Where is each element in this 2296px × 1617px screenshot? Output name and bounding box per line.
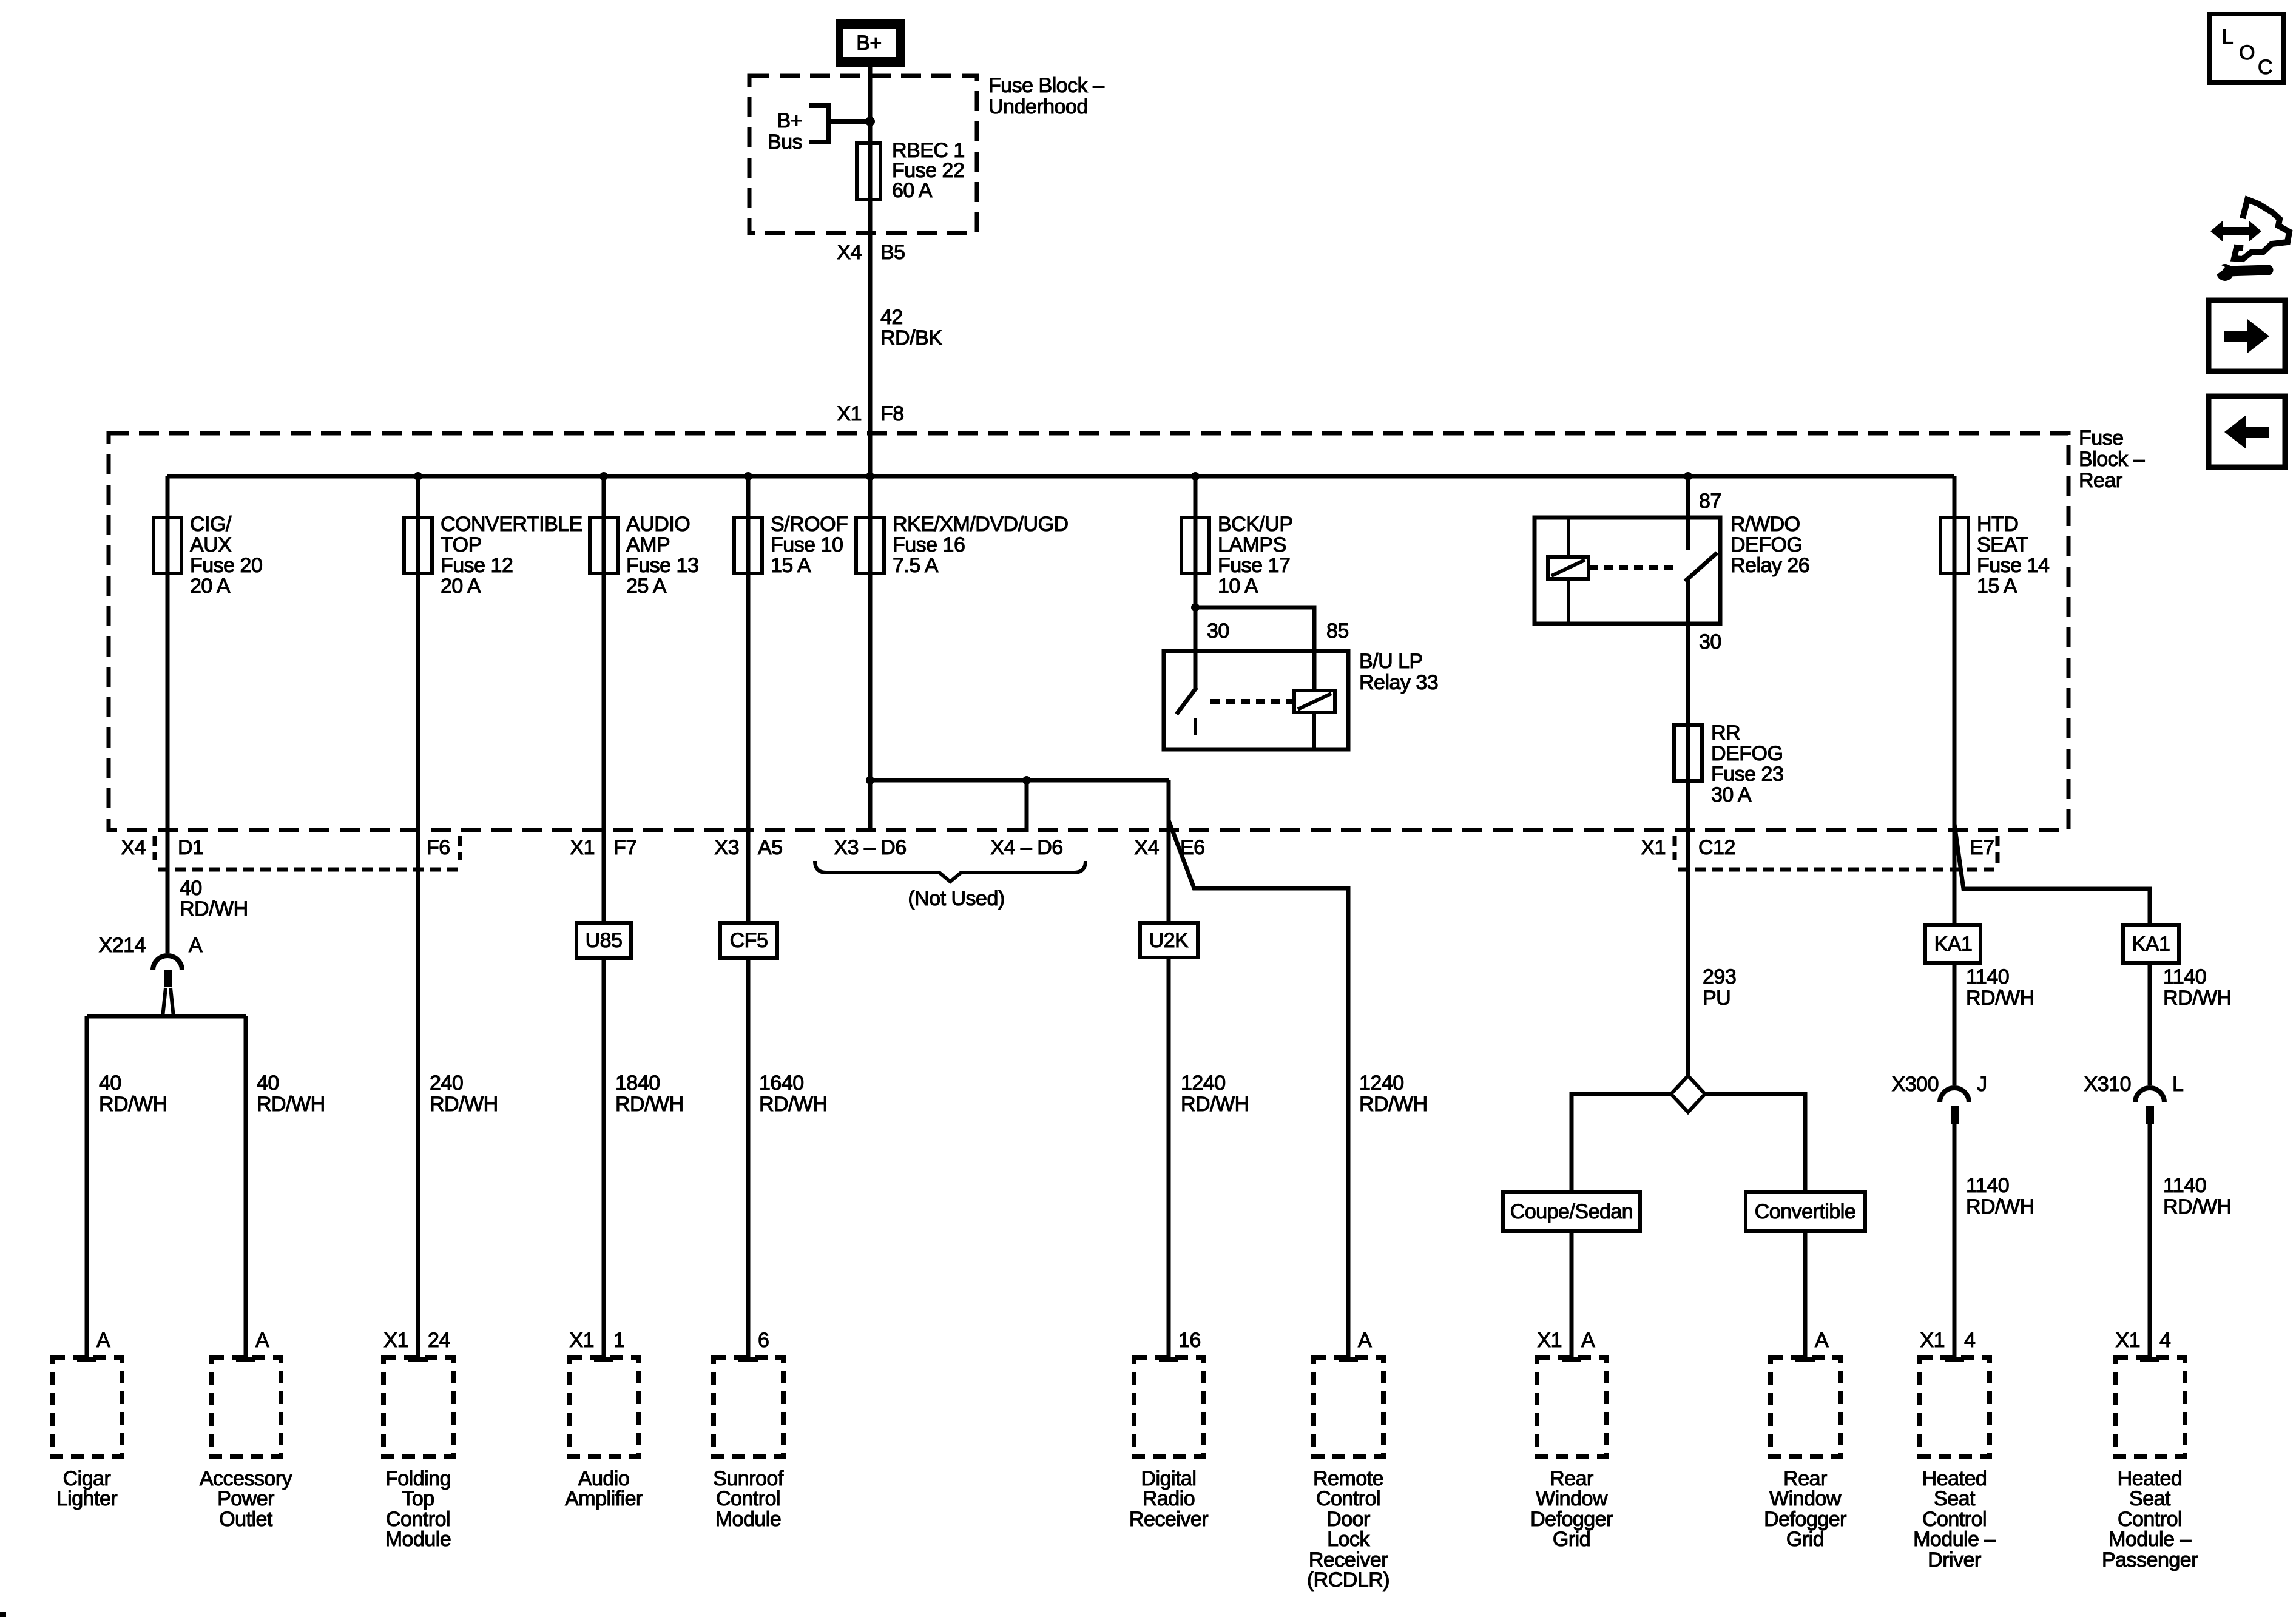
connector X310 L xyxy=(2084,1073,2184,1124)
svg-text:40: 40 xyxy=(257,1072,279,1095)
wire HTD SEAT passenger branch xyxy=(1954,824,2150,925)
station box U2K xyxy=(1140,923,1198,957)
svg-text:RR: RR xyxy=(1711,721,1740,744)
svg-text:A: A xyxy=(1815,1329,1829,1352)
svg-text:RKE/XM/DVD/UGD: RKE/XM/DVD/UGD xyxy=(893,513,1069,536)
junction rke wire xyxy=(866,776,874,785)
svg-text:10 A: 10 A xyxy=(1218,575,1258,598)
svg-text:AUX: AUX xyxy=(190,533,231,556)
wire RKE link to U2K branch xyxy=(870,778,1169,783)
module Heated Seat Control Module Driver xyxy=(1913,1358,1996,1571)
B+ terminal xyxy=(836,19,905,67)
Fuse Block - Rear dashed box xyxy=(109,433,2068,830)
pin labels X1 4 heated seat driver xyxy=(1920,1329,1975,1352)
svg-text:20 A: 20 A xyxy=(190,575,231,598)
svg-text:RD/WH: RD/WH xyxy=(2163,1195,2232,1218)
svg-text:CF5: CF5 xyxy=(730,929,768,952)
svg-text:1240: 1240 xyxy=(1181,1072,1226,1095)
module Sunroof Control Module xyxy=(713,1358,784,1531)
wire label 293 PU xyxy=(1703,965,1736,1010)
connector X300 J xyxy=(1892,1073,1987,1124)
pin labels X1 F8 xyxy=(837,402,903,425)
wire Coupe/Sedan to defogger grid xyxy=(1570,1231,1574,1359)
svg-text:Power: Power xyxy=(217,1487,274,1510)
Fuse Block - Underhood dashed box xyxy=(749,76,977,233)
icon wrench xyxy=(2212,260,2268,281)
svg-text:C12: C12 xyxy=(1698,836,1735,859)
svg-text:X1: X1 xyxy=(1641,836,1666,859)
pin labels X3 A5 xyxy=(714,836,782,859)
wire branch S/ROOF xyxy=(746,476,751,1359)
svg-text:X3 – D6: X3 – D6 xyxy=(834,836,906,859)
svg-text:B/U LP: B/U LP xyxy=(1359,650,1423,673)
svg-text:RD/WH: RD/WH xyxy=(430,1093,498,1116)
junction bck/up branch xyxy=(1191,472,1200,481)
svg-text:40: 40 xyxy=(99,1072,121,1095)
svg-text:LAMPS: LAMPS xyxy=(1218,533,1286,556)
svg-text:RD/WH: RD/WH xyxy=(1181,1093,1249,1116)
svg-text:Grid: Grid xyxy=(1786,1528,1824,1551)
wire label 1140 RD/WH driver lower xyxy=(1966,1174,2034,1218)
svg-text:7.5 A: 7.5 A xyxy=(893,554,939,577)
svg-text:X310: X310 xyxy=(2084,1073,2131,1096)
svg-text:L: L xyxy=(2172,1073,2183,1096)
svg-text:RD/BK: RD/BK xyxy=(880,326,942,349)
svg-text:Window: Window xyxy=(1769,1487,1842,1510)
svg-text:X1: X1 xyxy=(1537,1329,1562,1352)
module Accessory Power Outlet xyxy=(200,1358,292,1531)
junction convertible top branch xyxy=(414,472,422,481)
svg-text:AUDIO: AUDIO xyxy=(626,513,690,536)
wire label 40 RD/WH right xyxy=(257,1072,325,1116)
pin labels X4 E6 xyxy=(1134,836,1204,859)
svg-text:16: 16 xyxy=(1178,1329,1201,1352)
svg-text:15 A: 15 A xyxy=(1977,575,2017,598)
svg-text:Block –: Block – xyxy=(2079,448,2145,471)
pin labels X1 24 folding top xyxy=(383,1329,450,1352)
svg-text:B5: B5 xyxy=(880,241,905,264)
svg-text:CIG/: CIG/ xyxy=(190,513,232,536)
svg-text:O: O xyxy=(2239,41,2255,64)
svg-text:HTD: HTD xyxy=(1977,513,2018,536)
pin labels X1 4 heated seat passenger xyxy=(2115,1329,2170,1352)
svg-text:DEFOG: DEFOG xyxy=(1730,533,1802,556)
svg-text:1640: 1640 xyxy=(759,1072,804,1095)
svg-text:Fuse 10: Fuse 10 xyxy=(771,533,843,556)
svg-text:Radio: Radio xyxy=(1143,1487,1195,1510)
svg-text:X300: X300 xyxy=(1892,1073,1939,1096)
wire branch BCK/UP LAMPS xyxy=(1194,476,1198,689)
svg-text:Fuse Block –: Fuse Block – xyxy=(988,74,1104,97)
pin labels X3-D6 X4-D6 (Not Used) xyxy=(815,836,1086,910)
svg-text:U2K: U2K xyxy=(1149,929,1189,952)
station box CF5 xyxy=(720,923,777,958)
svg-text:Driver: Driver xyxy=(1928,1548,1981,1571)
svg-text:4: 4 xyxy=(1964,1329,1975,1352)
svg-text:30: 30 xyxy=(1699,630,1721,653)
svg-text:20 A: 20 A xyxy=(441,575,481,598)
svg-text:DEFOG: DEFOG xyxy=(1711,742,1783,765)
svg-text:L: L xyxy=(2222,25,2233,49)
svg-text:F8: F8 xyxy=(880,402,904,425)
svg-text:X1: X1 xyxy=(837,402,862,425)
fuse HTD SEAT Fuse 14 15 A xyxy=(1940,513,2049,598)
svg-text:1140: 1140 xyxy=(2163,1174,2206,1197)
junction x4-d6 stub xyxy=(1022,776,1031,785)
svg-text:(Not Used): (Not Used) xyxy=(908,887,1004,910)
module Folding Top Control Module xyxy=(383,1358,453,1551)
svg-text:40: 40 xyxy=(180,877,202,900)
svg-text:E6: E6 xyxy=(1180,836,1205,859)
wire BCK/UP to relay 33 pin 85 xyxy=(1195,607,1314,690)
relay R/WDO DEFOG Relay 26 xyxy=(1535,476,1809,653)
svg-text:Top: Top xyxy=(402,1487,434,1510)
svg-text:B+: B+ xyxy=(777,109,802,132)
svg-text:X4: X4 xyxy=(1134,836,1159,859)
svg-text:15 A: 15 A xyxy=(771,554,811,577)
svg-text:RD/WH: RD/WH xyxy=(1966,1195,2034,1218)
pin labels X4 B5 xyxy=(837,241,905,264)
module Rear Window Defogger Grid coupe xyxy=(1530,1358,1613,1551)
pin labels X1 A defogger coupe xyxy=(1537,1329,1595,1352)
wire label 1840 RD/WH xyxy=(615,1072,684,1116)
svg-text:A: A xyxy=(255,1329,269,1352)
wire label 1240 RD/WH right xyxy=(1359,1072,1428,1116)
svg-text:Fuse 13: Fuse 13 xyxy=(626,554,698,577)
svg-text:Passenger: Passenger xyxy=(2102,1548,2198,1571)
svg-text:Relay 33: Relay 33 xyxy=(1359,671,1438,694)
svg-text:RD/WH: RD/WH xyxy=(1966,987,2034,1010)
option box Convertible xyxy=(1746,1192,1865,1231)
svg-text:Control: Control xyxy=(716,1487,780,1510)
icon forward arrow box xyxy=(2209,300,2285,371)
wire branch HTD SEAT xyxy=(1953,476,1957,925)
svg-text:F6: F6 xyxy=(427,836,450,859)
fuse RR DEFOG Fuse 23 30 A xyxy=(1674,721,1783,806)
svg-text:X4 – D6: X4 – D6 xyxy=(990,836,1062,859)
wire label 40 RD/WH left xyxy=(99,1072,167,1116)
svg-text:30 A: 30 A xyxy=(1711,783,1752,806)
svg-text:J: J xyxy=(1977,1073,1987,1096)
wire splice Y to cigar lighter and accessory outlet xyxy=(87,988,246,1359)
module Cigar Lighter xyxy=(52,1358,122,1510)
splice diamond 293 PU xyxy=(1572,1076,1805,1192)
svg-text:X4: X4 xyxy=(837,241,862,264)
svg-text:C: C xyxy=(2258,56,2272,79)
svg-text:Module –: Module – xyxy=(2109,1528,2191,1551)
svg-text:Seat: Seat xyxy=(2129,1487,2171,1510)
connector X1 region C12-E7 dashed xyxy=(1675,836,1997,869)
svg-text:SEAT: SEAT xyxy=(1977,533,2028,556)
wire branch CONVERTIBLE TOP xyxy=(416,476,420,1359)
svg-text:RD/WH: RD/WH xyxy=(257,1093,325,1116)
label Fuse Block - Underhood xyxy=(988,74,1104,118)
svg-text:AMP: AMP xyxy=(626,533,670,556)
svg-text:S/ROOF: S/ROOF xyxy=(771,513,848,536)
wire branch CIG/AUX xyxy=(166,476,170,953)
svg-text:Relay 26: Relay 26 xyxy=(1730,554,1809,577)
wire label 1140 RD/WH passenger xyxy=(2163,965,2232,1010)
svg-text:TOP: TOP xyxy=(441,533,482,556)
svg-text:A: A xyxy=(189,934,203,957)
junction main feed xyxy=(866,472,874,481)
svg-text:Bus: Bus xyxy=(768,130,802,154)
svg-text:F7: F7 xyxy=(613,836,637,859)
svg-text:B+: B+ xyxy=(856,32,882,55)
connector X4 region D1-F6 dashed xyxy=(155,836,460,869)
svg-text:RD/WH: RD/WH xyxy=(759,1093,828,1116)
svg-text:42: 42 xyxy=(880,306,903,329)
wire U2K branch xyxy=(1167,780,1171,1359)
svg-text:Amplifier: Amplifier xyxy=(565,1487,643,1510)
svg-text:Underhood: Underhood xyxy=(988,95,1088,118)
wire B+ feed (42 RD/BK) xyxy=(868,63,873,832)
svg-text:1140: 1140 xyxy=(1966,965,2009,988)
pin labels X1 1 audio amplifier xyxy=(569,1329,624,1352)
svg-text:Fuse 12: Fuse 12 xyxy=(441,554,513,577)
svg-text:X1: X1 xyxy=(570,836,595,859)
wire label 1240 RD/WH left xyxy=(1181,1072,1249,1116)
module Digital Radio Receiver xyxy=(1129,1358,1208,1531)
svg-text:A: A xyxy=(1581,1329,1595,1352)
wire label 1140 RD/WH driver xyxy=(1966,965,2034,1010)
fuse RKE/XM/DVD/UGD Fuse 16 7.5 A xyxy=(856,513,1069,577)
svg-text:Fuse 20: Fuse 20 xyxy=(190,554,262,577)
module Remote Control Door Lock Receiver xyxy=(1307,1358,1389,1592)
pin labels X4 D1 xyxy=(121,836,203,859)
fuse RBEC 1 Fuse 22 60 A xyxy=(857,139,965,202)
svg-text:X1: X1 xyxy=(383,1329,408,1352)
svg-text:A: A xyxy=(1358,1329,1372,1352)
svg-text:RD/WH: RD/WH xyxy=(1359,1093,1428,1116)
svg-text:Window: Window xyxy=(1536,1487,1608,1510)
svg-text:(RCDLR): (RCDLR) xyxy=(1307,1568,1389,1592)
pin labels X1 C12 xyxy=(1641,836,1735,859)
svg-text:Lighter: Lighter xyxy=(56,1487,118,1510)
svg-text:Coupe/Sedan: Coupe/Sedan xyxy=(1510,1200,1633,1223)
svg-text:Grid: Grid xyxy=(1553,1528,1590,1551)
page mark xyxy=(0,1612,6,1617)
svg-text:R/WDO: R/WDO xyxy=(1730,513,1800,536)
svg-text:Convertible: Convertible xyxy=(1755,1200,1855,1223)
junction sunroof branch xyxy=(744,472,752,481)
station box U85 xyxy=(576,923,631,958)
svg-text:BCK/UP: BCK/UP xyxy=(1218,513,1293,536)
svg-text:6: 6 xyxy=(758,1329,769,1352)
svg-text:85: 85 xyxy=(1326,619,1349,643)
svg-text:1140: 1140 xyxy=(1966,1174,2009,1197)
svg-text:A5: A5 xyxy=(758,836,783,859)
fuse CONVERTIBLE TOP Fuse 12 20 A xyxy=(404,513,582,598)
svg-text:CONVERTIBLE: CONVERTIBLE xyxy=(441,513,582,536)
wire label 1640 RD/WH xyxy=(759,1072,828,1116)
wire X310 to heated seat passenger xyxy=(2148,1124,2152,1359)
svg-text:240: 240 xyxy=(430,1072,463,1095)
svg-text:1140: 1140 xyxy=(2163,965,2206,988)
junction r/wdo defog branch xyxy=(1684,472,1692,481)
fuse CIG/AUX Fuse 20 20 A xyxy=(154,513,262,598)
wire Convertible to defogger grid xyxy=(1803,1231,1808,1359)
svg-text:Fuse: Fuse xyxy=(2079,427,2124,450)
svg-text:25 A: 25 A xyxy=(626,575,667,598)
wire branch AUDIO AMP xyxy=(602,476,606,1359)
svg-text:D1: D1 xyxy=(178,836,203,859)
wire label 240 RD/WH xyxy=(430,1072,498,1116)
svg-text:Fuse 23: Fuse 23 xyxy=(1711,763,1783,786)
svg-text:1240: 1240 xyxy=(1359,1072,1404,1095)
svg-text:A: A xyxy=(96,1329,110,1352)
svg-text:X4: X4 xyxy=(121,836,146,859)
station box KA1 passenger xyxy=(2123,925,2179,963)
svg-text:293: 293 xyxy=(1703,965,1736,988)
wire relay 26 pin 30 to splice xyxy=(1686,579,1690,1076)
svg-text:24: 24 xyxy=(428,1329,450,1352)
svg-text:X1: X1 xyxy=(1920,1329,1945,1352)
pin labels X1 F7 xyxy=(570,836,636,859)
connector X214 A xyxy=(99,934,203,987)
svg-text:PU: PU xyxy=(1703,987,1730,1010)
svg-text:KA1: KA1 xyxy=(1934,933,1973,956)
svg-text:X1: X1 xyxy=(2115,1329,2140,1352)
svg-text:KA1: KA1 xyxy=(2132,933,2170,956)
svg-text:4: 4 xyxy=(2159,1329,2170,1352)
wire label 1140 RD/WH passenger lower xyxy=(2163,1174,2232,1218)
svg-text:RD/WH: RD/WH xyxy=(615,1093,684,1116)
icon back arrow box xyxy=(2209,396,2285,467)
svg-text:Receiver: Receiver xyxy=(1129,1508,1208,1531)
svg-text:RD/WH: RD/WH xyxy=(180,897,248,920)
svg-text:Module: Module xyxy=(715,1508,782,1531)
wire main bus xyxy=(167,474,1954,479)
fuse BCK/UP LAMPS Fuse 17 10 A xyxy=(1181,513,1293,598)
station box KA1 driver xyxy=(1925,925,1980,963)
label Fuse Block - Rear xyxy=(2079,427,2145,492)
svg-text:Module –: Module – xyxy=(1913,1528,1996,1551)
module Heated Seat Control Module Passenger xyxy=(2102,1358,2198,1571)
svg-text:Outlet: Outlet xyxy=(219,1508,273,1531)
wire label 42 RD/BK xyxy=(880,306,942,349)
module Rear Window Defogger Grid convertible xyxy=(1764,1358,1846,1551)
wire stub X4-D6 xyxy=(1025,780,1029,832)
svg-text:U85: U85 xyxy=(586,929,623,952)
wire RCDLR branch xyxy=(1169,820,1348,1359)
svg-text:X214: X214 xyxy=(99,934,146,957)
svg-text:RD/WH: RD/WH xyxy=(99,1093,167,1116)
svg-text:Lock: Lock xyxy=(1327,1528,1370,1551)
svg-text:X1: X1 xyxy=(569,1329,594,1352)
relay B/U LP Relay 33 xyxy=(1164,619,1438,749)
svg-text:1: 1 xyxy=(613,1329,624,1352)
svg-text:87: 87 xyxy=(1699,490,1721,513)
icon data link connector symbol xyxy=(2210,200,2289,259)
wire label 40 RD/WH xyxy=(180,877,248,920)
module Audio Amplifier xyxy=(565,1358,643,1510)
svg-text:Fuse 16: Fuse 16 xyxy=(893,533,965,556)
junction audio amp branch xyxy=(599,472,608,481)
svg-text:Seat: Seat xyxy=(1934,1487,1976,1510)
icon LOC box xyxy=(2209,14,2284,83)
svg-text:30: 30 xyxy=(1207,619,1229,643)
svg-text:Control: Control xyxy=(1316,1487,1380,1510)
svg-text:1840: 1840 xyxy=(615,1072,660,1095)
svg-text:E7: E7 xyxy=(1970,836,1994,859)
junction dot xyxy=(1191,603,1200,612)
svg-text:RD/WH: RD/WH xyxy=(2163,987,2232,1010)
svg-text:Rear: Rear xyxy=(2079,469,2122,492)
svg-text:Module: Module xyxy=(385,1528,451,1551)
node B+ Bus xyxy=(768,106,875,154)
svg-text:Fuse 14: Fuse 14 xyxy=(1977,554,2049,577)
svg-text:X3: X3 xyxy=(714,836,739,859)
wire KA1 passenger to X310 xyxy=(2148,963,2152,1085)
fuse AUDIO AMP Fuse 13 25 A xyxy=(590,513,698,598)
svg-text:60 A: 60 A xyxy=(892,179,933,202)
fuse S/ROOF Fuse 10 15 A xyxy=(734,513,848,577)
wire X300 to heated seat driver xyxy=(1953,1124,1957,1359)
svg-text:Fuse 17: Fuse 17 xyxy=(1218,554,1290,577)
wire KA1 driver to X300 xyxy=(1953,963,1957,1085)
option box Coupe/Sedan xyxy=(1503,1192,1640,1231)
